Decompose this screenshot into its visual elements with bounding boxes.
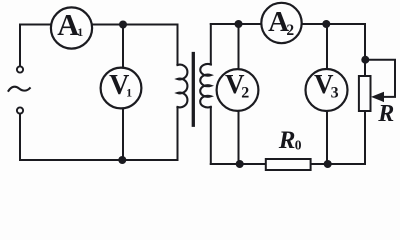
voltmeter V2 <box>217 69 259 111</box>
wire: secondary bottom stub <box>210 107 212 164</box>
wire: right loop bottom right of R0 <box>310 163 365 165</box>
junction dot V2 top <box>235 20 243 28</box>
wire: R branch lower <box>364 111 366 164</box>
wire: V2 branch <box>238 24 240 164</box>
ammeter A2 <box>261 3 301 43</box>
junction dot V1 bottom <box>118 156 126 164</box>
transformer T primary coil <box>178 65 188 108</box>
junction dot V3 bottom <box>324 160 332 168</box>
resistor R0 body <box>266 159 311 170</box>
voltmeter V1 <box>101 68 142 109</box>
junction dot V3 top <box>322 20 330 28</box>
resistor R body <box>359 76 371 111</box>
svg-text:2: 2 <box>286 22 294 39</box>
wire: wiper loop <box>365 60 395 97</box>
wire: secondary top stub <box>210 24 212 65</box>
svg-text:R: R <box>377 101 394 127</box>
transformer T secondary coil <box>200 64 211 107</box>
transformer core <box>192 54 195 126</box>
svg-text:3: 3 <box>331 85 339 102</box>
ammeter A1 <box>51 7 92 48</box>
wire: left loop top <box>20 24 178 26</box>
svg-text:1: 1 <box>77 25 83 39</box>
wire: right loop top <box>211 23 365 25</box>
junction dot wiper <box>361 56 369 64</box>
wire: V3 branch <box>326 24 328 164</box>
wiper arrowhead <box>371 92 384 102</box>
ac source tilde <box>9 87 30 91</box>
wire: left loop bottom <box>20 159 178 161</box>
wire: left loop right upper <box>177 25 179 66</box>
wire: left loop left upper <box>19 25 21 67</box>
junction dot V1 top <box>119 21 127 29</box>
svg-text:2: 2 <box>241 85 249 102</box>
voltmeter V3 <box>306 69 348 111</box>
svg-text:1: 1 <box>126 86 132 100</box>
svg-text:0: 0 <box>295 138 302 153</box>
wire: left loop right lower <box>177 107 179 160</box>
wire: right loop bottom left of R0 <box>211 163 266 165</box>
wire: V1 branch <box>122 25 124 161</box>
junction dot V2 bottom <box>236 160 244 168</box>
wire: left loop left lower <box>19 114 21 160</box>
wire: R branch upper <box>364 24 366 76</box>
terminal: source top <box>17 66 23 72</box>
svg-text:R: R <box>278 127 296 154</box>
terminal: source bottom <box>17 107 23 113</box>
svg-text:A: A <box>57 8 79 42</box>
